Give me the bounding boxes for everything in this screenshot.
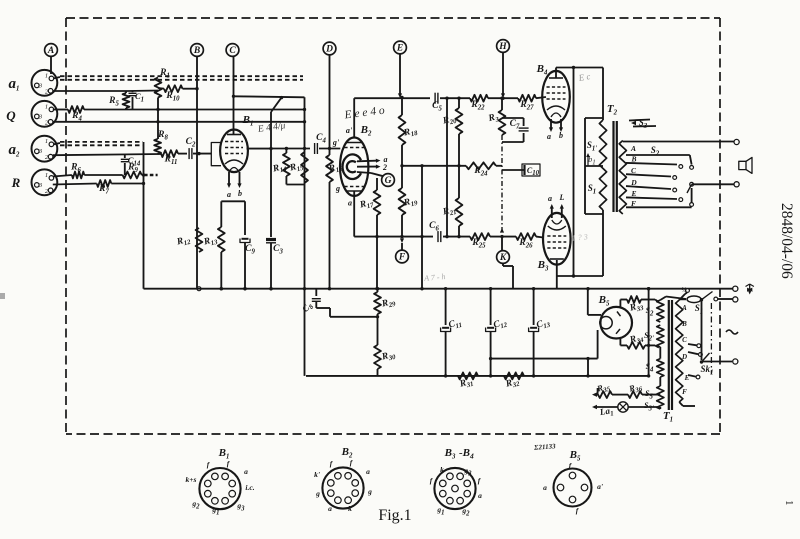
svg-text:2: 2 [382, 163, 387, 172]
svg-text:D: D [630, 178, 637, 187]
svg-text:k: k [348, 504, 352, 513]
svg-text:a': a' [346, 126, 353, 135]
svg-text:C: C [682, 336, 687, 344]
svg-text:a: a [548, 194, 552, 203]
svg-text:F: F [398, 253, 406, 263]
svg-text:g: g [335, 184, 340, 193]
svg-text:G: G [385, 176, 392, 186]
svg-text:1: 1 [783, 500, 795, 506]
svg-text:Q: Q [6, 108, 16, 123]
svg-text:k+s: k+s [186, 475, 197, 484]
svg-text:F: F [682, 388, 687, 396]
svg-text:a: a [366, 467, 370, 476]
svg-text:a: a [478, 491, 482, 500]
svg-text:F: F [631, 199, 636, 208]
svg-text:a: a [348, 199, 352, 208]
svg-text:Fig.1: Fig.1 [378, 507, 411, 524]
svg-text:E: E [396, 44, 403, 54]
svg-text:a: a [227, 190, 231, 199]
svg-text:D: D [325, 45, 333, 55]
svg-text:i.c.: i.c. [245, 483, 254, 492]
svg-text:k': k' [314, 470, 320, 479]
svg-text:b: b [238, 189, 242, 198]
svg-text:1 ? 3: 1 ? 3 [571, 232, 588, 242]
svg-text:a: a [543, 483, 547, 492]
svg-text:k: k [440, 465, 444, 474]
svg-text:B: B [193, 46, 200, 56]
svg-text:A: A [681, 304, 687, 312]
svg-text:B: B [681, 320, 687, 328]
svg-text:g: g [315, 489, 320, 498]
svg-text:A: A [630, 144, 636, 153]
svg-text:1: 1 [45, 138, 48, 145]
svg-text:L: L [559, 193, 565, 202]
svg-text:g: g [367, 487, 372, 496]
svg-text:1: 1 [45, 103, 48, 110]
svg-text:B: B [630, 155, 636, 164]
svg-text:¼: ¼ [681, 286, 687, 294]
svg-text:2848/04-/06: 2848/04-/06 [778, 203, 795, 279]
svg-text:C: C [229, 46, 236, 56]
svg-text:E: E [630, 189, 636, 198]
svg-text:a': a' [597, 482, 603, 491]
svg-text:Σ21133: Σ21133 [533, 442, 556, 452]
svg-text:a: a [244, 467, 248, 476]
svg-text:g': g' [332, 138, 340, 147]
svg-text:D: D [681, 353, 687, 361]
svg-text:K: K [499, 253, 507, 263]
svg-text:R: R [11, 175, 21, 190]
svg-text:b: b [559, 131, 563, 140]
svg-text:a: a [328, 504, 332, 513]
svg-text:H: H [498, 42, 507, 52]
svg-text:1: 1 [45, 72, 48, 79]
svg-text:a: a [547, 132, 551, 141]
svg-text:1: 1 [45, 172, 48, 179]
svg-text:A: A [47, 46, 54, 56]
